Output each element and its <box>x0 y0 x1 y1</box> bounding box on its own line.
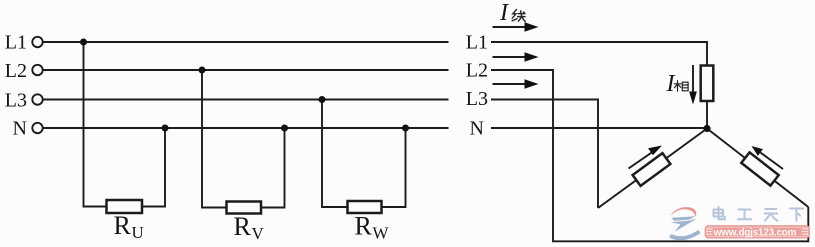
wire right diagonal branch <box>707 129 808 208</box>
svg-text:www.dgjs123.com: www.dgjs123.com <box>713 228 797 239</box>
label I-line current <box>499 0 509 26</box>
watermark url stripes left <box>707 229 713 234</box>
wire load V return <box>261 128 285 208</box>
wire phase resistor to star point <box>706 101 708 129</box>
arrow phase current (down) <box>689 65 697 105</box>
terminal L2 <box>32 65 42 75</box>
junction dot N-load U <box>162 125 169 132</box>
svg-text:I: I <box>499 0 509 26</box>
label L3 (right) <box>466 88 488 110</box>
watermark text dian (electric) <box>714 207 725 219</box>
wire phase L1 bus <box>43 41 449 43</box>
svg-text:R: R <box>355 212 373 241</box>
svg-text:L3: L3 <box>466 88 488 110</box>
svg-text:L3: L3 <box>5 90 27 112</box>
glyph xian (line) subscript <box>512 10 525 22</box>
terminal L3 <box>32 94 42 104</box>
watermark url text <box>713 228 797 239</box>
svg-text:W: W <box>373 224 390 243</box>
resistor RW <box>348 201 382 213</box>
label RV <box>234 212 265 243</box>
wire load U drop <box>84 42 107 207</box>
junction dot L3-load W <box>319 96 326 103</box>
watermark text tian (sky) <box>765 209 778 221</box>
wire phase L3 bus <box>43 99 449 101</box>
watermark logo blue bottom arc <box>672 233 699 239</box>
wire phase L2 bus <box>43 69 449 71</box>
svg-text:R: R <box>114 211 132 240</box>
svg-text:L2: L2 <box>466 60 488 82</box>
label L1 (right) <box>466 32 488 54</box>
label I-phase current <box>666 71 676 97</box>
svg-text:L1: L1 <box>466 32 488 54</box>
resistor phase W (right diagonal) <box>741 152 778 185</box>
wire load V drop <box>202 70 227 208</box>
svg-text:R: R <box>234 212 252 241</box>
resistor RV <box>227 202 262 214</box>
wire L2 feeder drop and bottom run <box>491 70 808 241</box>
arrow current left branch <box>629 146 663 169</box>
resistor RU <box>107 200 143 213</box>
glyph xiang (phase) subscript <box>674 81 688 92</box>
junction dot N-load V <box>281 125 288 132</box>
svg-text:L2: L2 <box>5 60 27 82</box>
arrow current right branch <box>752 146 784 169</box>
junction dot N-load W <box>402 125 409 132</box>
label RU <box>114 211 144 242</box>
wire L3 feeder drop <box>491 100 598 209</box>
terminal L1 <box>32 37 42 47</box>
svg-text:N: N <box>470 118 484 140</box>
watermark text gong (work) <box>738 210 751 220</box>
wire left diagonal branch <box>598 129 707 209</box>
label L1 (left) <box>5 32 27 54</box>
label L2 (right) <box>466 60 488 82</box>
watermark logo red arc <box>670 207 696 216</box>
node star point <box>703 125 710 132</box>
wire N to star point <box>491 127 707 129</box>
label RW <box>355 212 390 243</box>
arrow line-current L3 <box>493 79 539 89</box>
watermark logo blue bolt <box>671 216 697 232</box>
svg-text:U: U <box>132 223 144 242</box>
svg-text:L1: L1 <box>5 32 27 54</box>
resistor phase U (vertical) <box>701 66 714 102</box>
label N (left) <box>13 118 27 140</box>
wire load U return <box>142 128 166 207</box>
junction dot L2-load V <box>199 67 206 74</box>
junction dot L1-load U <box>80 39 87 46</box>
watermark url box <box>705 226 810 239</box>
terminal N <box>32 123 42 133</box>
svg-text:V: V <box>252 224 265 243</box>
label N (right) <box>470 118 484 140</box>
wire load W return <box>382 128 406 207</box>
resistor phase V (left diagonal) <box>633 153 671 186</box>
wire neutral N bus <box>43 127 449 129</box>
wire load W drop <box>322 100 348 208</box>
arrow line-current L1 <box>493 22 539 32</box>
arrow line-current L2 <box>493 52 539 62</box>
wire L1 feeder to phase resistor <box>491 42 707 66</box>
watermark text xia (under) <box>790 209 803 221</box>
watermark url stripes right <box>802 229 808 234</box>
label L3 (left) <box>5 90 27 112</box>
svg-text:N: N <box>13 118 27 140</box>
label L2 (left) <box>5 60 27 82</box>
